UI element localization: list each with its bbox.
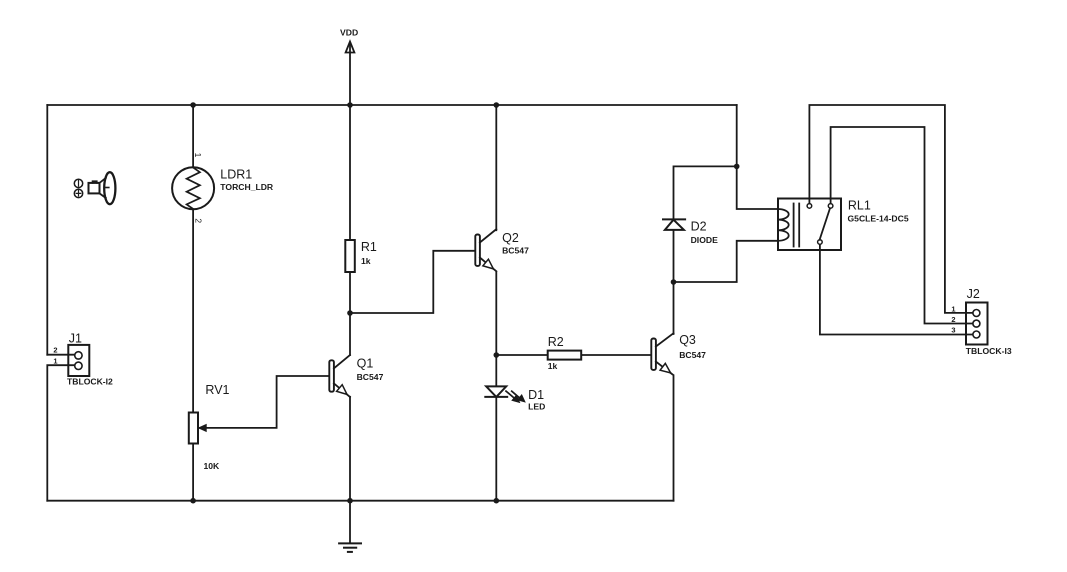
wire node to Q2 base [350, 251, 475, 313]
wire ground stem [349, 501, 351, 543]
resistor R1 [345, 240, 355, 272]
svg-text:2: 2 [53, 345, 57, 354]
power VDD symbol [346, 42, 355, 106]
svg-text:RL1: RL1 [848, 199, 871, 213]
wire bottom rail [47, 500, 673, 502]
connector J1 [68, 345, 89, 376]
wire top rail [47, 104, 736, 106]
wire left rail upper [46, 105, 48, 355]
wire VDD to R1 [349, 105, 351, 240]
wire LDR branch top [192, 105, 194, 167]
svg-text:BC547: BC547 [679, 350, 706, 360]
connector J2 [966, 303, 988, 345]
LDR LDR1 [172, 167, 214, 209]
wire Q2 emitter to node [495, 272, 497, 355]
svg-text:2: 2 [194, 218, 204, 223]
wire J1 pin1 [47, 365, 74, 501]
svg-text:1k: 1k [361, 256, 371, 266]
svg-text:D1: D1 [528, 388, 544, 402]
svg-text:R2: R2 [548, 335, 564, 349]
wire D1 to bottom rail [495, 397, 497, 501]
svg-text:BC547: BC547 [502, 245, 529, 255]
svg-text:Q2: Q2 [502, 231, 519, 245]
svg-text:BC547: BC547 [357, 372, 384, 382]
svg-text:LED: LED [528, 402, 545, 412]
svg-text:2: 2 [951, 315, 955, 324]
wire node to Q1 collector [349, 313, 351, 355]
svg-text:DIODE: DIODE [691, 235, 718, 245]
diode D2 [663, 219, 685, 230]
wire Q3 emitter to bottom rail [673, 377, 675, 501]
wire top rail down to relay coil top [737, 105, 778, 209]
wire J1 pin2 [47, 354, 74, 356]
svg-text:1: 1 [951, 304, 955, 313]
wire D2 top [674, 166, 737, 219]
svg-text:LDR1: LDR1 [220, 168, 252, 182]
wire LDR to RV1 [192, 209, 194, 412]
svg-text:J1: J1 [69, 331, 82, 345]
speaker icon [74, 172, 115, 204]
wire Q2 collector to top rail [495, 105, 497, 230]
svg-text:1: 1 [53, 356, 57, 365]
wire RV1 to bottom rail [192, 444, 194, 501]
wire Q1 base to RV1 wiper [200, 376, 329, 428]
LED D1 [485, 386, 525, 402]
svg-text:1k: 1k [548, 361, 558, 371]
transistor Q1 [329, 355, 350, 397]
wire node to D1 [495, 355, 497, 386]
ground [339, 543, 361, 552]
svg-text:TBLOCK-I2: TBLOCK-I2 [67, 377, 113, 387]
transistor Q3 [651, 333, 673, 375]
svg-text:R1: R1 [361, 240, 377, 254]
wire R1 to node [349, 272, 351, 313]
svg-text:RV1: RV1 [205, 383, 229, 397]
svg-text:Q1: Q1 [357, 356, 374, 370]
resistor R2 [548, 351, 582, 360]
wire R2 to Q3 base [581, 354, 651, 356]
relay RL1 [778, 199, 841, 251]
wire Q1 emitter to bottom rail [349, 397, 351, 501]
svg-text:1: 1 [193, 153, 203, 158]
svg-text:G5CLE-14-DC5: G5CLE-14-DC5 [848, 213, 909, 223]
svg-text:J2: J2 [967, 287, 980, 301]
svg-text:VDD: VDD [340, 28, 358, 38]
svg-text:TORCH_LDR: TORCH_LDR [220, 182, 274, 192]
wire D2 bottom node [673, 230, 675, 282]
svg-text:10K: 10K [204, 461, 221, 471]
svg-text:TBLOCK-I3: TBLOCK-I3 [966, 346, 1012, 356]
svg-text:D2: D2 [691, 220, 707, 234]
transistor Q2 [475, 229, 496, 271]
wire node to R2 [496, 354, 547, 356]
potentiometer RV1 [189, 413, 206, 444]
svg-text:3: 3 [951, 326, 955, 335]
svg-text:Q3: Q3 [679, 333, 696, 347]
junction node dots [190, 102, 739, 503]
wire relay pole to J2 pin3 [820, 244, 973, 334]
wire D2 node to relay coil bottom [674, 241, 778, 282]
wire relay COM pin to J2 pin1 [809, 105, 973, 313]
wire relay NO pin to J2 pin2 [831, 127, 973, 324]
wire Q3 collector up to D2 node [673, 282, 675, 334]
